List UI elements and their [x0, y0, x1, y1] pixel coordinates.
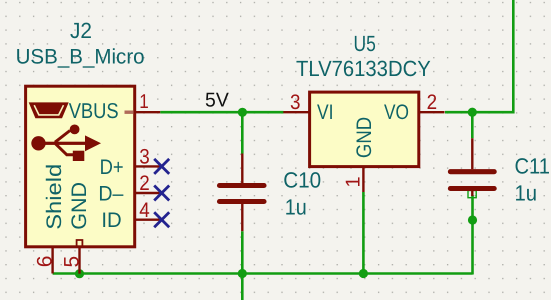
- unconnected wire end square C11: [468, 191, 476, 198]
- capacitor C10: [220, 154, 265, 232]
- regulator U5 body: [310, 92, 419, 167]
- wire U5 GND pin to rail: [362, 192, 365, 274]
- J2 pin 3 D+: [135, 165, 161, 167]
- connector J2 body: [26, 86, 135, 247]
- no-connect X pin 4: [154, 212, 169, 227]
- U5 pin 1 GND: [362, 167, 364, 192]
- svg-text:VO: VO: [384, 101, 409, 124]
- J2 pin 1 VBUS: [135, 111, 161, 113]
- J2 pin 5 GND: [78, 247, 80, 274]
- svg-text:3: 3: [290, 91, 301, 114]
- U5 pin 3 VI: [283, 111, 309, 113]
- svg-text:5: 5: [60, 256, 83, 268]
- svg-text:U5: U5: [354, 31, 376, 56]
- svg-text:6: 6: [33, 256, 56, 268]
- svg-text:USB_B_Micro: USB_B_Micro: [16, 45, 145, 68]
- junction VO node: [468, 108, 477, 117]
- svg-text:1: 1: [139, 91, 149, 113]
- svg-text:GND: GND: [353, 117, 376, 158]
- USB trident icon: [31, 124, 101, 161]
- no-connect X pin 2: [154, 186, 169, 201]
- J2 pin 4 ID: [135, 218, 161, 220]
- svg-text:1u: 1u: [515, 181, 538, 206]
- svg-text:C11: C11: [515, 154, 551, 179]
- svg-text:J2: J2: [70, 18, 92, 43]
- wire C11 bottom to rail corner: [471, 195, 474, 275]
- svg-text:2: 2: [139, 172, 150, 195]
- svg-text:5V: 5V: [205, 89, 229, 111]
- wire C10 bottom to ground rail and below: [241, 231, 244, 300]
- svg-text:1u: 1u: [285, 194, 307, 219]
- junction U5 GND rail: [359, 269, 368, 278]
- wire 5V horizontal from J2 pin1 to U5 pin3: [160, 111, 283, 114]
- svg-text:VBUS: VBUS: [69, 99, 119, 123]
- svg-text:TLV76133DCY: TLV76133DCY: [296, 56, 431, 81]
- pin 1 inner stub: [125, 110, 134, 113]
- svg-text:ID: ID: [101, 209, 121, 232]
- svg-text:C10: C10: [283, 167, 321, 192]
- wire drop from 5V node to C10: [241, 112, 244, 153]
- svg-text:1: 1: [343, 176, 365, 187]
- J2 pin 2 D-: [135, 192, 161, 194]
- wire ground rail: [53, 272, 473, 275]
- svg-text:GND: GND: [68, 182, 91, 230]
- pin 5 notch inside body: [77, 240, 83, 247]
- junction C10 rail: [238, 269, 247, 278]
- junction J2 GND pin5: [75, 269, 84, 278]
- svg-text:D+: D+: [100, 156, 124, 179]
- J2 pin 6 Shield: [51, 247, 53, 274]
- U5 pin 2 VO: [419, 111, 445, 113]
- svg-text:2: 2: [427, 91, 438, 114]
- wire VO node down to C11: [471, 112, 474, 138]
- svg-text:4: 4: [139, 199, 150, 222]
- junction 5V node: [238, 108, 247, 117]
- svg-text:VI: VI: [317, 101, 334, 124]
- no-connect X pin 3: [154, 159, 169, 174]
- svg-text:3: 3: [139, 146, 150, 169]
- svg-text:D–: D–: [98, 183, 123, 206]
- junction C11 branch: [468, 215, 477, 224]
- capacitor C11: [450, 138, 494, 196]
- svg-text:Shield: Shield: [43, 164, 66, 230]
- USB plug trapezoid icon: [29, 102, 69, 118]
- wire VO to top right: [445, 0, 513, 112]
